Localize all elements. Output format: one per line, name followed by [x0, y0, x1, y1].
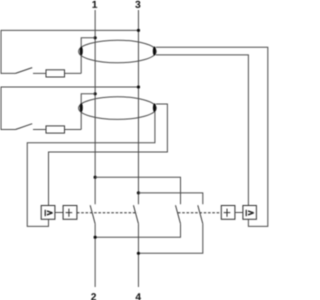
pole 1-2 conductor upper segment: [94, 10, 96, 204]
wire actuator right to relay K2: [235, 212, 243, 214]
node on line 3 (aux branch top): [137, 191, 140, 194]
wire T2 secondary bottom pin loop to relay K1 bottom: [27, 112, 155, 227]
pole 3-4 conductor lower segment: [137, 224, 139, 287]
wire resistor R2 to test switch S2: [33, 129, 46, 131]
aux contact pole 1 blade: [176, 205, 181, 224]
node on line 1 (test circuit 2 tap): [94, 92, 97, 95]
wire test circuit 2 from line 1 down through T2 left winding: [81, 94, 95, 130]
node on line 3 (test circuit 2): [137, 85, 140, 88]
wire aux branch pole 1 bottom: [95, 224, 180, 237]
trip actuator right box: [221, 206, 235, 220]
node on line 3 (aux branch bottom): [137, 252, 140, 255]
node on line 1 (test circuit 1 tap): [94, 36, 97, 39]
T2 secondary winding: [153, 103, 156, 112]
wire switch S1 to line 3: [1, 30, 138, 73]
T2 left winding: [80, 103, 83, 112]
wire T1 secondary bottom pin to trip relay K2: [156, 55, 249, 206]
node on line 1 (aux branch bottom): [94, 236, 97, 239]
main contact pole 3 blade: [133, 205, 138, 224]
terminal label 1: [92, 1, 97, 8]
node on line 1 (aux branch top): [94, 176, 97, 179]
node on line 3 (test circuit 1): [137, 29, 140, 32]
terminal label 4: [136, 293, 141, 300]
wire T1 secondary top pin to outer right loop: [156, 47, 268, 226]
wire aux branch pole 3 bottom: [138, 224, 202, 254]
relay K2 label I>: [246, 210, 247, 216]
test switch S2 blade: [16, 124, 33, 130]
wire switch S2 to line 3: [1, 87, 138, 130]
pole 3-4 conductor upper segment: [137, 10, 139, 204]
terminal label 3: [135, 1, 140, 8]
toroid core T2: [79, 97, 157, 120]
wire aux branch pole 3 top: [138, 193, 202, 204]
wire winding to resistor R1: [65, 72, 82, 74]
wire resistor R1 to test switch S1: [33, 72, 46, 74]
trip actuator left box: [63, 206, 77, 220]
trip relay K2 box: [243, 206, 257, 220]
relay K1 label I>: [45, 210, 46, 216]
wire relay K1 to left actuator: [55, 212, 63, 214]
wire winding to resistor R2: [65, 129, 82, 131]
wire test circuit 1 from line 1 down through T1 left winding: [81, 38, 95, 74]
actuator left plus symbol: [66, 209, 73, 217]
mechanical linkage left (dashed): [77, 212, 137, 214]
resistor R1 (test resistor): [46, 70, 65, 77]
T1 secondary winding: [153, 46, 156, 55]
actuator right plus symbol: [224, 209, 231, 217]
T1 left winding: [80, 46, 83, 55]
resistor R2 (test resistor): [46, 126, 65, 133]
aux contact pole 3 blade: [198, 205, 203, 224]
test switch S1 blade: [16, 68, 33, 74]
trip relay K1 box: [41, 206, 55, 220]
wire T2 secondary top pin to trip relay K1: [49, 104, 168, 206]
main contact pole 1 blade: [90, 205, 95, 224]
wire aux branch pole 1 top: [95, 177, 180, 204]
terminal label 2: [91, 293, 96, 300]
mechanical linkage right (dashed): [178, 212, 221, 214]
toroid core T1: [79, 40, 157, 63]
pole 1-2 conductor lower segment: [94, 224, 96, 287]
